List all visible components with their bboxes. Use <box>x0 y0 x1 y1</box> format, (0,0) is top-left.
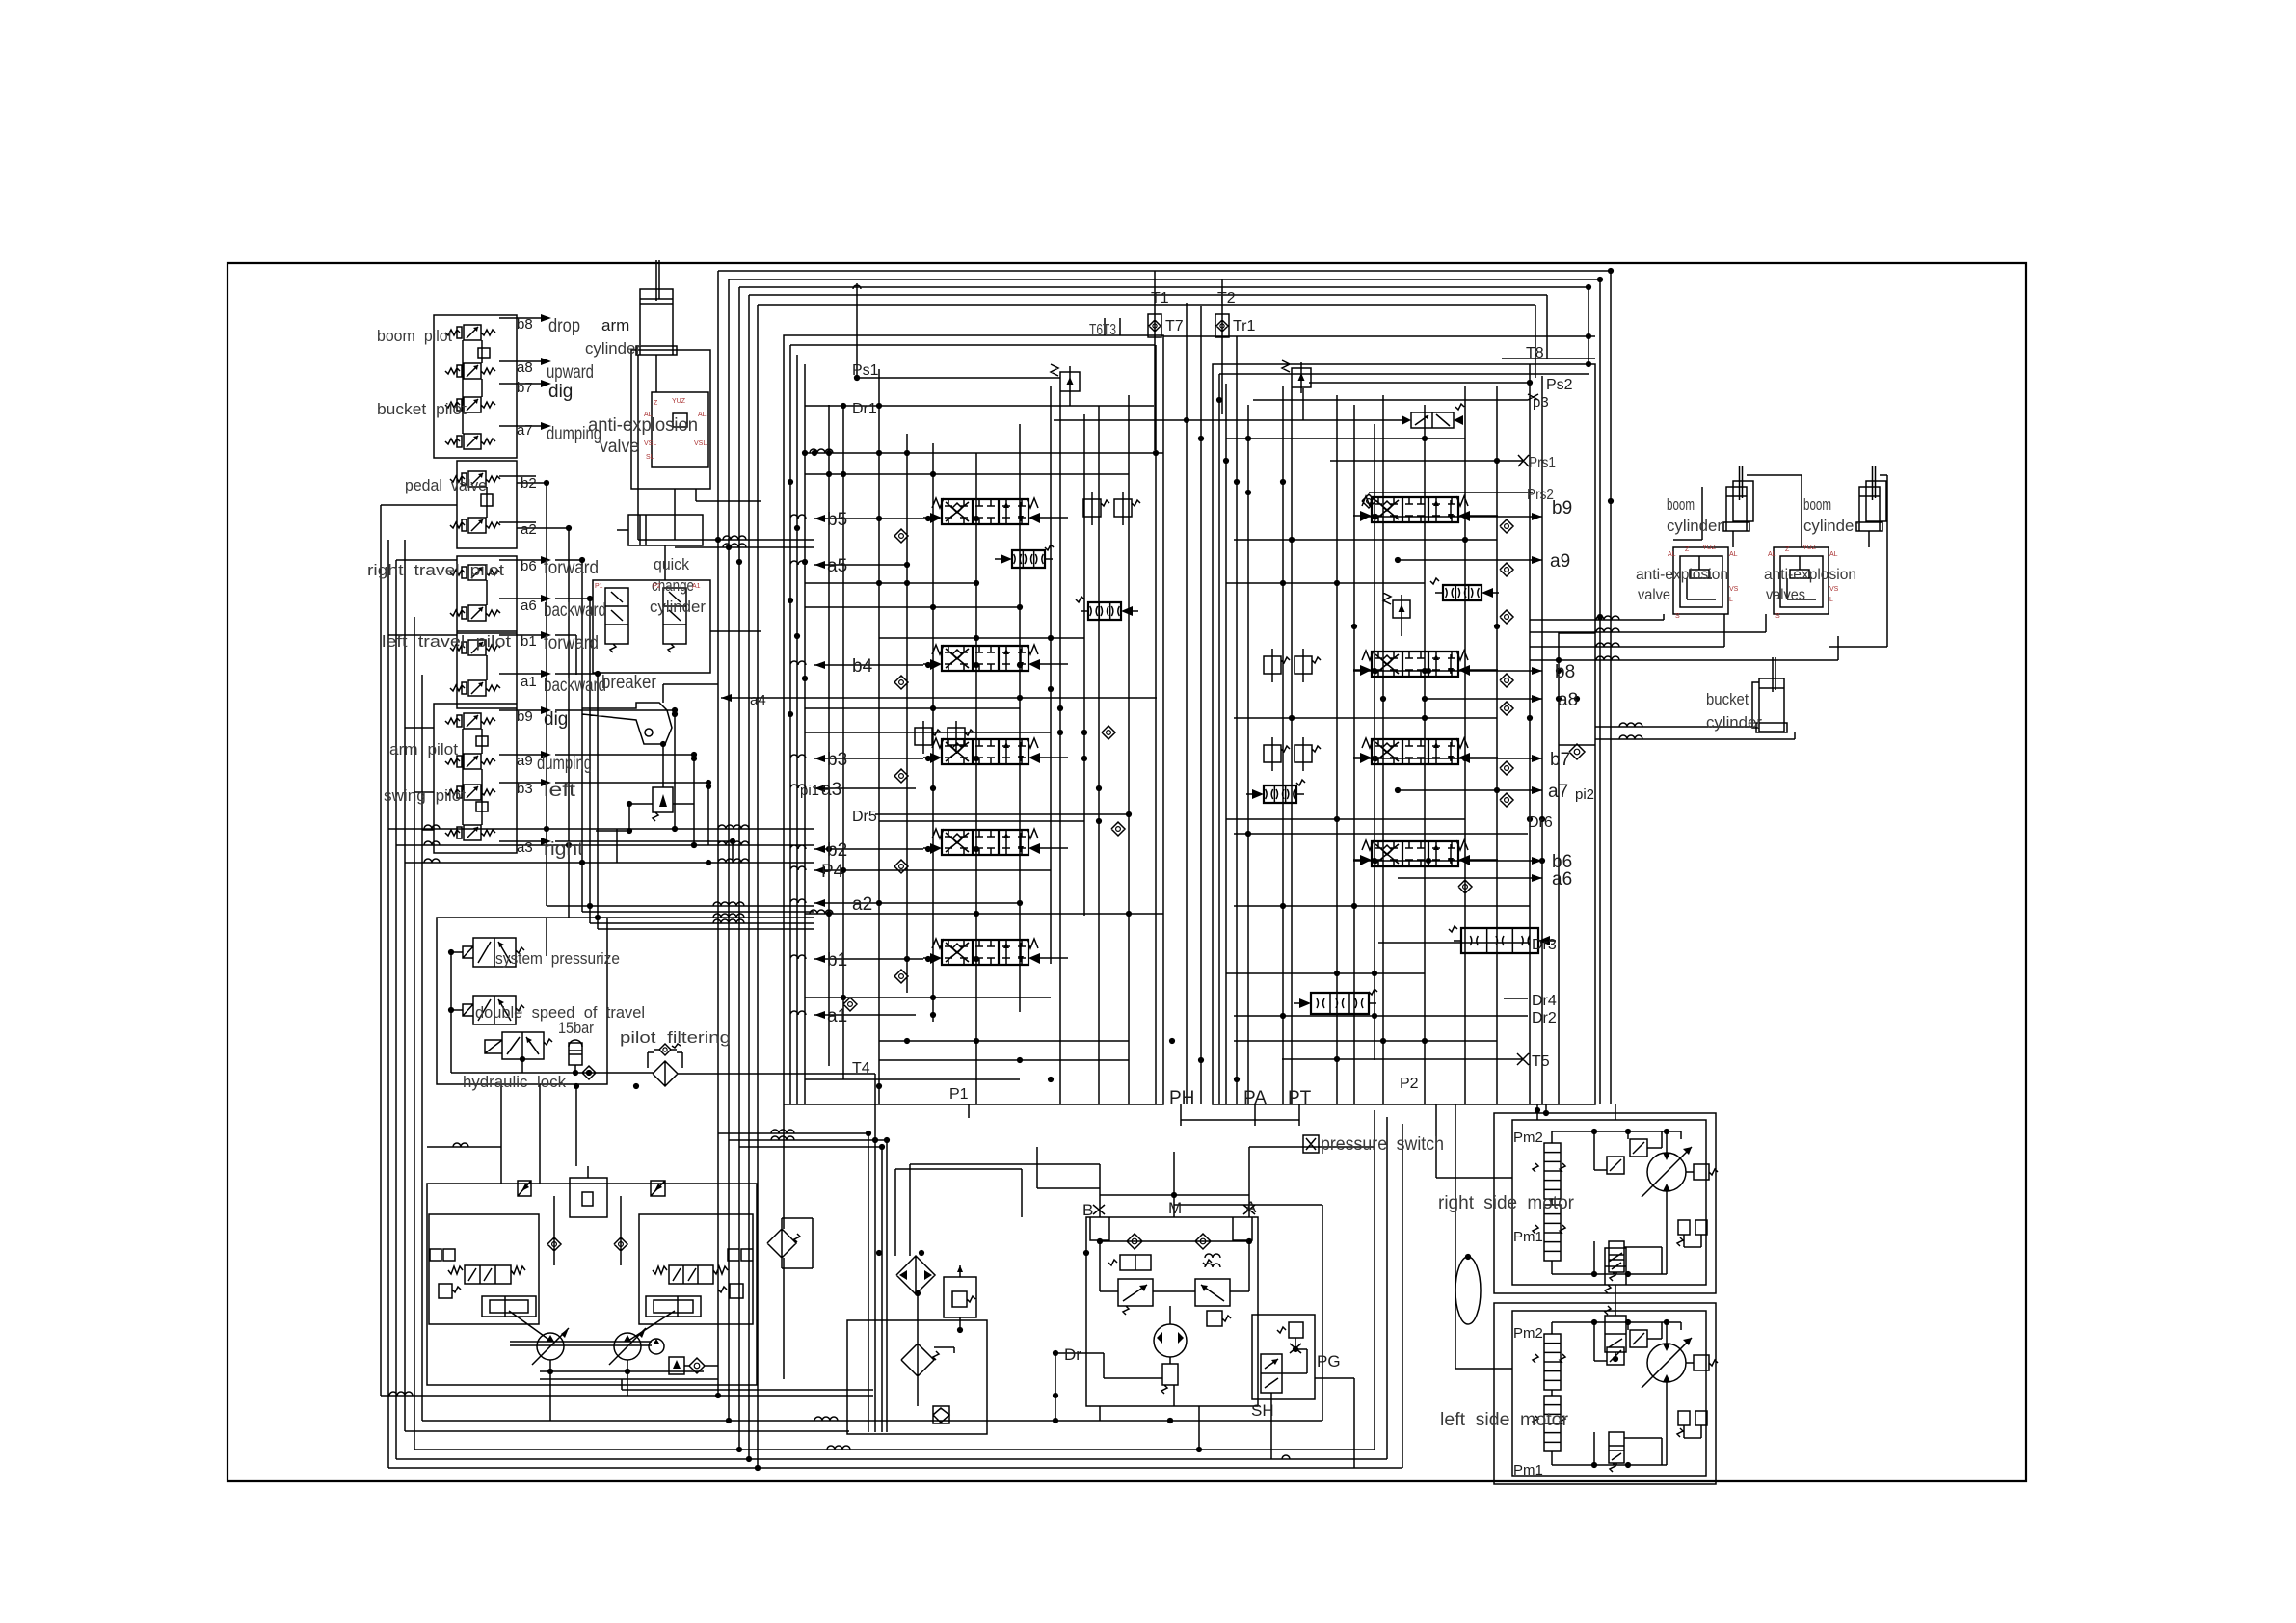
svg-text:P4: P4 <box>821 862 844 882</box>
svg-text:S: S <box>1775 613 1780 620</box>
svg-text:hydraulic lock: hydraulic lock <box>463 1073 566 1091</box>
svg-text:boom: boom <box>1803 495 1831 514</box>
svg-text:left travel pilot: left travel pilot <box>382 632 511 651</box>
svg-text:T4: T4 <box>852 1060 870 1077</box>
svg-text:right: right <box>544 839 584 860</box>
svg-text:15bar: 15bar <box>558 1019 594 1037</box>
svg-text:forward: forward <box>544 558 599 578</box>
svg-text:arm pilot: arm pilot <box>389 740 458 758</box>
svg-text:Dr3: Dr3 <box>1532 937 1557 953</box>
svg-text:PG: PG <box>1317 1352 1341 1370</box>
svg-text:pi1: pi1 <box>800 783 819 799</box>
svg-text:a8: a8 <box>517 359 533 376</box>
svg-text:a7: a7 <box>517 422 533 439</box>
svg-text:Pm1: Pm1 <box>1513 1229 1543 1245</box>
svg-text:Dr4: Dr4 <box>1532 993 1557 1009</box>
svg-text:T5: T5 <box>1532 1053 1550 1070</box>
svg-text:arm: arm <box>601 316 629 334</box>
svg-text:Pm1: Pm1 <box>1513 1462 1543 1478</box>
svg-text:b2: b2 <box>827 840 847 861</box>
svg-text:b3: b3 <box>827 750 847 770</box>
svg-text:L: L <box>1729 597 1733 603</box>
svg-text:quick: quick <box>654 555 689 573</box>
svg-text:Z: Z <box>1685 546 1690 553</box>
svg-text:SH: SH <box>1251 1401 1274 1420</box>
svg-text:cylinder: cylinder <box>1667 517 1722 535</box>
svg-text:b9: b9 <box>1552 498 1572 519</box>
svg-text:P2: P2 <box>653 583 661 590</box>
svg-text:right side motor: right side motor <box>1438 1193 1575 1213</box>
svg-text:YUZ: YUZ <box>672 398 686 405</box>
svg-text:P2: P2 <box>1400 1076 1419 1092</box>
svg-text:b1: b1 <box>521 633 537 650</box>
svg-text:a2: a2 <box>521 521 537 538</box>
svg-text:cylinder: cylinder <box>585 339 641 358</box>
svg-text:T8: T8 <box>1526 345 1544 361</box>
svg-text:Prs2: Prs2 <box>1527 487 1554 503</box>
svg-text:Dr: Dr <box>1064 1345 1081 1364</box>
svg-text:a5: a5 <box>827 556 847 576</box>
svg-text:anti-explosion: anti-explosion <box>1636 567 1728 583</box>
svg-text:PA: PA <box>1243 1088 1267 1108</box>
svg-text:cylinder: cylinder <box>1706 713 1762 732</box>
svg-text:b8: b8 <box>517 316 533 333</box>
svg-text:b1: b1 <box>827 950 847 971</box>
svg-text:AL: AL <box>1829 551 1838 558</box>
svg-text:breaker: breaker <box>601 673 657 693</box>
svg-text:A: A <box>1245 1198 1257 1216</box>
svg-text:YUZ: YUZ <box>1702 545 1717 551</box>
svg-text:Pm2: Pm2 <box>1513 1130 1543 1146</box>
svg-text:Dr6: Dr6 <box>1528 814 1553 831</box>
svg-text:a8: a8 <box>1558 690 1578 710</box>
svg-text:left: left <box>544 781 576 801</box>
svg-text:bucket pilot: bucket pilot <box>377 400 467 418</box>
svg-text:valve: valve <box>1638 587 1670 603</box>
svg-text:SL: SL <box>646 454 654 461</box>
svg-text:swing pilot: swing pilot <box>384 786 466 805</box>
svg-text:Z: Z <box>654 400 658 407</box>
svg-text:forward: forward <box>544 633 599 653</box>
svg-text:b3: b3 <box>517 781 533 797</box>
svg-text:VSL: VSL <box>694 440 707 447</box>
svg-text:B: B <box>1082 1201 1093 1219</box>
svg-text:boom pilot: boom pilot <box>377 327 452 345</box>
svg-text:VS: VS <box>1829 586 1839 593</box>
svg-text:Ps2: Ps2 <box>1546 377 1573 393</box>
svg-text:left side motor: left side motor <box>1440 1410 1569 1430</box>
svg-text:valves: valves <box>1766 587 1805 603</box>
svg-text:a3: a3 <box>517 839 533 856</box>
svg-text:p3: p3 <box>1533 394 1549 411</box>
svg-text:dig: dig <box>548 382 573 402</box>
svg-text:AL: AL <box>644 412 653 418</box>
svg-text:anti-explosion: anti-explosion <box>588 415 698 436</box>
svg-text:backward: backward <box>544 676 606 696</box>
svg-text:T6T3: T6T3 <box>1089 322 1116 338</box>
svg-text:a7: a7 <box>1548 782 1568 802</box>
svg-text:VS: VS <box>1729 586 1739 593</box>
svg-text:Dr5: Dr5 <box>852 809 877 825</box>
svg-text:b8: b8 <box>1555 662 1575 682</box>
svg-text:A1: A1 <box>692 583 701 590</box>
svg-text:a9: a9 <box>1550 551 1570 572</box>
svg-text:PH: PH <box>1169 1088 1194 1108</box>
svg-text:a4: a4 <box>750 692 766 708</box>
svg-text:bucket: bucket <box>1706 690 1749 708</box>
svg-text:T7: T7 <box>1165 318 1184 334</box>
svg-text:Dr1: Dr1 <box>852 401 877 417</box>
svg-text:T1: T1 <box>1151 290 1169 306</box>
svg-text:drop: drop <box>548 316 580 336</box>
svg-text:valve: valve <box>600 437 639 457</box>
svg-text:b7: b7 <box>1550 750 1570 770</box>
svg-text:Ps1: Ps1 <box>852 362 879 379</box>
svg-text:b9: b9 <box>517 708 533 725</box>
svg-text:backward: backward <box>544 600 606 621</box>
svg-text:Z: Z <box>1785 546 1790 553</box>
svg-text:AL: AL <box>1668 551 1676 558</box>
svg-text:PT: PT <box>1288 1088 1312 1108</box>
svg-text:b2: b2 <box>521 475 537 492</box>
svg-text:dumping: dumping <box>537 754 592 774</box>
svg-text:P1: P1 <box>595 583 603 590</box>
svg-text:b6: b6 <box>521 558 537 574</box>
svg-text:b5: b5 <box>827 510 847 530</box>
svg-text:b7: b7 <box>517 380 533 396</box>
svg-text:Tr1: Tr1 <box>1233 318 1256 334</box>
svg-text:VSL: VSL <box>644 440 656 447</box>
svg-text:AL: AL <box>1729 551 1738 558</box>
svg-text:a6: a6 <box>1552 869 1572 890</box>
svg-text:system pressurize: system pressurize <box>495 949 620 968</box>
svg-text:anti-explosion: anti-explosion <box>1764 567 1856 583</box>
svg-text:M: M <box>1168 1199 1182 1217</box>
svg-text:T2: T2 <box>1217 290 1236 306</box>
svg-text:a3: a3 <box>821 780 841 800</box>
svg-text:pilot filtering: pilot filtering <box>620 1028 731 1047</box>
svg-text:a1: a1 <box>521 674 537 690</box>
svg-text:S: S <box>1675 613 1680 620</box>
svg-text:a9: a9 <box>517 753 533 769</box>
svg-text:cylinder: cylinder <box>650 598 706 616</box>
svg-text:right travel pilot: right travel pilot <box>367 561 504 579</box>
svg-text:upward: upward <box>547 362 594 383</box>
svg-text:P1: P1 <box>949 1086 969 1103</box>
svg-text:L: L <box>1829 597 1833 603</box>
svg-text:Dr2: Dr2 <box>1532 1010 1557 1026</box>
svg-text:pressure switch: pressure switch <box>1321 1134 1444 1155</box>
svg-text:YUZ: YUZ <box>1802 545 1817 551</box>
svg-text:Prs1: Prs1 <box>1529 455 1556 471</box>
svg-text:b4: b4 <box>852 656 873 677</box>
svg-text:a2: a2 <box>852 894 872 915</box>
svg-text:dig: dig <box>544 709 568 730</box>
svg-text:boom: boom <box>1667 495 1695 514</box>
svg-text:pi2: pi2 <box>1575 786 1594 803</box>
svg-text:a1: a1 <box>827 1006 847 1026</box>
svg-text:a6: a6 <box>521 598 537 614</box>
svg-text:AL: AL <box>698 412 707 418</box>
svg-text:cylinder: cylinder <box>1803 517 1859 535</box>
svg-text:Pm2: Pm2 <box>1513 1325 1543 1342</box>
svg-text:pedal valve: pedal valve <box>405 476 487 494</box>
svg-text:AL: AL <box>1768 551 1776 558</box>
